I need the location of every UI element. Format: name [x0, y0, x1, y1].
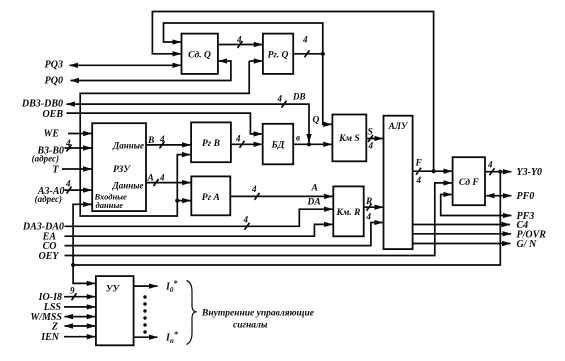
svg-text:4: 4	[243, 215, 249, 225]
slash 4 on A3-A0	[67, 187, 72, 194]
brace internal signals	[187, 281, 197, 345]
slash 9 on IO-I8	[72, 293, 77, 300]
svg-text:DА: DА	[307, 198, 321, 208]
svg-text:УУ: УУ	[106, 285, 121, 295]
wire LSS to УУ	[64, 306, 95, 308]
svg-text:4: 4	[366, 212, 372, 222]
svg-text:G/ N: G/ N	[517, 239, 538, 250]
svg-text:(адрес): (адрес)	[35, 194, 62, 204]
box Рг А (A latch)	[191, 176, 230, 215]
wire B data РЗУ to Рг В	[146, 144, 190, 146]
svg-text:4: 4	[487, 160, 493, 170]
wire Рг.Q output	[293, 53, 323, 55]
box Км R (R mux)	[333, 186, 363, 236]
wire F feedback to Сд.Q	[152, 12, 433, 172]
svg-text:F: F	[415, 159, 423, 169]
svg-text:In*: In*	[165, 330, 179, 345]
wire Q feedback to Сд.Q	[164, 23, 323, 54]
svg-text:OEB: OEB	[42, 109, 63, 120]
wire F АЛУ to Сд F	[413, 170, 452, 172]
slash 4 on Рг А output	[255, 193, 260, 200]
wire PF3 loop from Сд F	[441, 195, 512, 216]
wire In* output	[134, 336, 158, 338]
wire A3-A0 address	[65, 189, 92, 191]
svg-text:OEY: OEY	[39, 251, 60, 262]
svg-text:А: А	[147, 174, 154, 184]
wire W/MSS bidirectional	[65, 316, 96, 318]
svg-text:Данные: Данные	[112, 141, 144, 151]
wire PF0 bidirectional	[486, 195, 511, 197]
slash 4 on Y output	[490, 168, 495, 175]
svg-text:4: 4	[416, 175, 422, 185]
svg-text:4: 4	[251, 184, 257, 194]
svg-text:в: в	[296, 133, 300, 143]
box Рг.Q (Q register)	[263, 34, 293, 74]
svg-text:WE: WE	[43, 129, 59, 140]
svg-text:4: 4	[302, 35, 308, 45]
svg-text:Км. R: Км. R	[335, 208, 360, 218]
wire Рг А to Км R	[230, 195, 332, 197]
wire PQ0	[71, 61, 231, 81]
svg-text:4: 4	[65, 179, 71, 189]
svg-text:9: 9	[70, 286, 75, 296]
wire C4 output	[413, 224, 510, 226]
box БД (data buffer)	[263, 124, 294, 165]
svg-text:I0*: I0*	[165, 279, 178, 294]
wire internal bus to Рг.Q / Рг В / Рг А	[249, 60, 262, 62]
svg-text:РЗУ: РЗУ	[113, 165, 131, 175]
svg-text:АЛУ: АЛУ	[388, 121, 409, 131]
svg-text:А: А	[311, 184, 318, 194]
slash 4 on Рг.Q output	[305, 50, 310, 57]
wire G/N output	[413, 243, 511, 245]
wire Сд.Q to Рг.Q	[218, 44, 262, 46]
svg-text:Т: Т	[52, 165, 59, 176]
wire Q to Км S	[323, 54, 332, 125]
svg-text:данные: данные	[96, 200, 124, 210]
svg-text:Рг А: Рг А	[202, 193, 220, 203]
wire DA3-DA0 to Км R	[65, 209, 333, 226]
svg-text:4: 4	[277, 94, 283, 104]
wire R output Км R to АЛУ	[364, 206, 383, 208]
node Q junction dot	[321, 52, 325, 56]
box Км S (S mux)	[332, 115, 366, 162]
wire Y feedback to УУ	[73, 265, 95, 283]
wire I0* output	[134, 285, 158, 287]
wire Y3-Y0 output	[485, 171, 511, 173]
svg-text:Z: Z	[51, 322, 58, 333]
wire DB3-DB0	[67, 104, 310, 142]
box РЗУ (RAM)	[92, 123, 146, 211]
svg-text:4: 4	[235, 134, 241, 144]
wire A data РЗУ to Рг А	[146, 182, 191, 184]
wire B3-B0 address	[65, 147, 92, 149]
slash 4 on B3-B0	[67, 145, 72, 152]
svg-text:В: В	[147, 136, 154, 146]
svg-text:(адрес): (адрес)	[32, 154, 59, 164]
wire Z bidirectional	[65, 325, 96, 327]
svg-text:Рг В: Рг В	[202, 139, 220, 149]
svg-text:Данные: Данные	[112, 181, 144, 191]
box Сд F (F shifter)	[453, 157, 485, 205]
node dot on bus at Рг А	[175, 199, 179, 203]
slash 4 on Рг В output	[240, 141, 245, 148]
node Y junction dot	[498, 170, 502, 174]
wire S output Км S to АЛУ	[366, 138, 383, 140]
wire bus into Рг А	[177, 200, 190, 202]
node dot DB/B junction	[307, 142, 311, 146]
wire P/OVR output	[413, 233, 511, 235]
slash 4 on DA	[245, 223, 250, 230]
box Рг В (B latch)	[191, 122, 231, 162]
svg-text:4: 4	[159, 134, 165, 144]
svg-text:Внутренние управляющие: Внутренние управляющие	[201, 309, 315, 319]
wire БД to Км S	[293, 143, 332, 145]
wire CO to АЛУ	[65, 223, 383, 246]
wire IEN to УУ	[64, 336, 95, 338]
svg-text:Сд F: Сд F	[459, 177, 479, 188]
wire OEY to Сд F	[65, 183, 452, 256]
svg-text:Рг. Q: Рг. Q	[268, 51, 289, 61]
svg-text:сигналы: сигналы	[233, 321, 268, 331]
svg-text:DB3-DB0: DB3-DB0	[21, 99, 63, 110]
svg-text:4: 4	[236, 35, 242, 45]
wire Y feedback to РЗУ and УУ	[73, 172, 500, 265]
wire PQ3	[70, 64, 181, 66]
wire IO-I8 to УУ	[64, 296, 95, 298]
box УУ (control unit)	[96, 276, 134, 345]
svg-text:PQ0: PQ0	[45, 76, 63, 87]
svg-text:Км S: Км S	[338, 134, 360, 144]
slash 4 on Сд.Q-Рг.Q	[238, 41, 243, 48]
node dots between I0* and In*	[143, 295, 146, 333]
svg-text:PQ3: PQ3	[45, 60, 63, 71]
wire WE	[68, 133, 92, 135]
wire EA to Км R	[65, 224, 333, 236]
box АЛУ (ALU)	[384, 116, 413, 249]
svg-text:4: 4	[65, 138, 71, 148]
node F junction dot	[432, 169, 436, 173]
wire T	[62, 168, 92, 170]
svg-text:Y3-Y0: Y3-Y0	[517, 167, 543, 178]
svg-text:Q: Q	[313, 116, 320, 126]
svg-text:PF0: PF0	[517, 191, 535, 202]
wire OEB	[67, 113, 263, 134]
svg-text:Сд. Q: Сд. Q	[188, 50, 211, 61]
svg-text:4: 4	[159, 173, 165, 183]
svg-text:DB: DB	[292, 92, 306, 102]
wire Рг В to БД	[231, 143, 262, 145]
svg-text:IЕN: IЕN	[40, 332, 60, 343]
slash 4 DB on DB bus	[282, 101, 287, 108]
svg-text:БД: БД	[271, 141, 285, 151]
box Сд.Q (Q shifter)	[182, 34, 218, 74]
svg-text:4: 4	[368, 141, 374, 151]
node Y feedback dot	[71, 263, 75, 267]
